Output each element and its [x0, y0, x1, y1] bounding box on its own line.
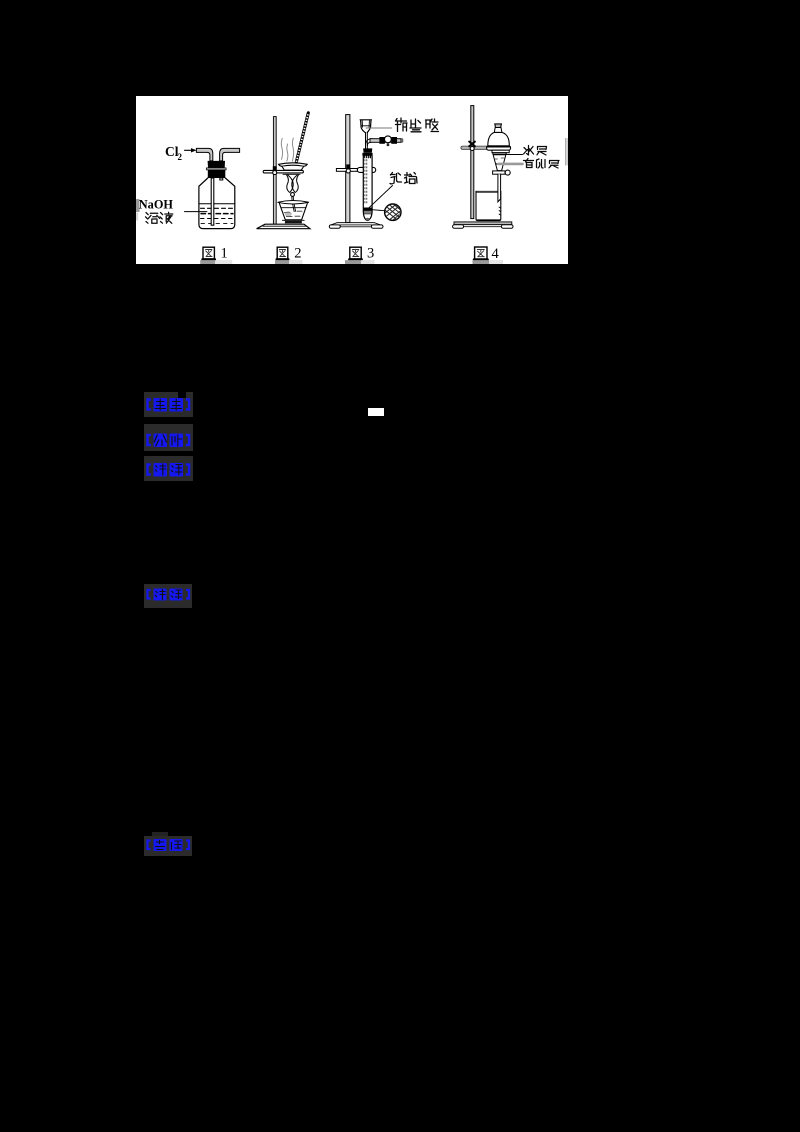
stand base with feet [454, 222, 512, 225]
glass rod (striped) [296, 113, 308, 162]
label 纯碱 + pointer [390, 173, 417, 184]
stopper at tube top [363, 148, 372, 152]
mesh ball [385, 204, 401, 220]
strip 2 【分析】 [144, 424, 193, 452]
cone body [493, 153, 507, 171]
line to mesh ball [372, 210, 384, 211]
caption 图 1 [200, 246, 232, 265]
bottle outline [199, 178, 235, 229]
soda ash band (black) in tube bottom [363, 208, 372, 211]
neck [494, 128, 502, 133]
figure panel (white box with 4 apparatus drawings) [136, 96, 568, 264]
caption 图 3 [345, 246, 375, 265]
separating funnel stopper [495, 124, 502, 128]
stand rod [273, 117, 276, 225]
stand rod [471, 106, 474, 219]
funnel cup on top [360, 120, 371, 133]
stand base [257, 224, 310, 229]
svg-text:3: 3 [367, 246, 374, 262]
stopcock [493, 171, 506, 174]
clamp screw X [469, 142, 475, 147]
scan artifact gray bar at left edge [136, 199, 140, 212]
caption 图 2 [275, 246, 303, 265]
inlet tube (left, bends down) [196, 148, 212, 161]
clamp arm + iron ring under dish (one bar) [263, 170, 303, 173]
fake glyph 液 [160, 212, 173, 223]
steam wavy lines [281, 138, 293, 161]
svg-text:4: 4 [492, 246, 500, 262]
funnel stem [365, 133, 367, 149]
svg-text:2: 2 [294, 246, 301, 262]
fake glyph 溶 [146, 213, 160, 224]
stem [498, 174, 501, 202]
strip 5 【点睛】 [152, 832, 168, 840]
graduation ticks [365, 160, 367, 205]
layer lines [494, 154, 506, 156]
strip 1 【答案】 [144, 392, 193, 417]
fake glyphs 水层 [524, 146, 547, 156]
lamp base (dark) [285, 221, 302, 224]
tube bottom tip [366, 218, 370, 221]
graduated tube [363, 156, 372, 221]
stand rod [346, 115, 350, 223]
pointer lines to labels [499, 154, 522, 156]
white dash (equation fragment) [368, 408, 384, 416]
bulb [488, 132, 510, 146]
inlet tube inside bottle (down into liquid) [211, 178, 214, 225]
fake glyphs 稀盐酸 [396, 118, 439, 132]
outlet tube stub inside bottle [220, 178, 223, 180]
svg-text:1: 1 [221, 246, 228, 262]
label line to 稀盐酸 [366, 127, 392, 129]
fake glyphs 有机层 [524, 159, 560, 169]
outlet tube (right, bends right) [220, 148, 240, 161]
stand base with feet [337, 223, 374, 225]
pointer line from label to liquid [185, 211, 207, 213]
arrow to inlet tube [185, 149, 193, 151]
NaOH liquid surface [199, 203, 235, 205]
svg-text:2: 2 [178, 152, 183, 162]
rubber stopper (black, two bands) [208, 161, 225, 168]
beaker [476, 191, 501, 220]
wick into lamp [292, 196, 294, 211]
wick collar [291, 193, 295, 197]
dashed liquid rows [201, 207, 234, 209]
collar [487, 146, 511, 150]
clamp arm + sleeve [336, 169, 357, 172]
strip 4 【详解】 [144, 584, 192, 608]
flame (braided) [287, 175, 299, 192]
right edge artifact lines [565, 139, 567, 166]
caption 图 4 [473, 246, 504, 264]
svg-text:NaOH: NaOH [139, 198, 174, 212]
evaporating dish [279, 163, 308, 166]
alcohol lamp [278, 201, 309, 205]
strip 3 【详解】 [144, 456, 193, 481]
side arm with stopcock [366, 139, 373, 146]
clamp bar [461, 146, 509, 149]
